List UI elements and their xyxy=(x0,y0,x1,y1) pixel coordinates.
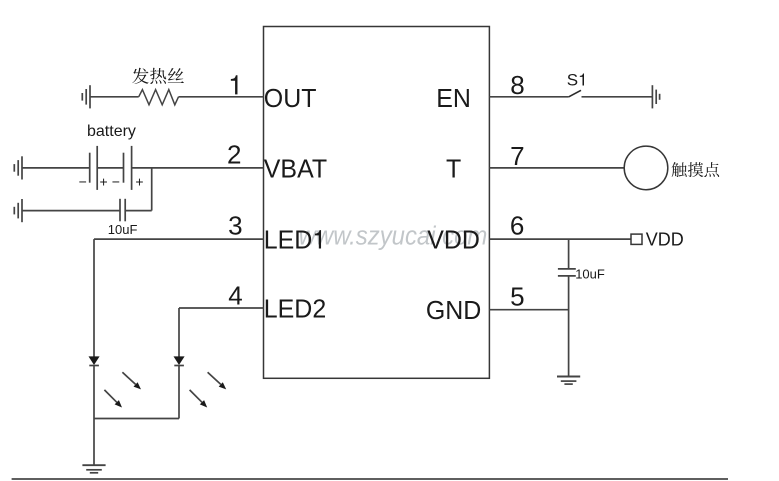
pin label T xyxy=(446,155,461,184)
svg-text:battery: battery xyxy=(87,123,136,140)
wire junction up to VBAT net xyxy=(151,168,153,211)
wire between battery cells xyxy=(97,167,123,169)
svg-text:+: + xyxy=(100,174,108,190)
ground (capacitor C1 return) xyxy=(21,199,23,222)
pin label OUT xyxy=(264,85,317,114)
wire switch S1 to ground xyxy=(582,96,653,98)
wire ground to battery B1 xyxy=(22,167,90,169)
label touch point (Chinese) xyxy=(672,162,720,177)
wire pin 5 GND to net xyxy=(489,309,568,311)
wire battery B1 to pin 2 VBAT xyxy=(132,167,264,169)
pin label GND xyxy=(426,297,481,326)
switch S1 lever xyxy=(569,90,581,97)
wire pin 4 down to LED D2 xyxy=(178,308,180,357)
battery B1 cell 1 xyxy=(89,153,91,183)
capacitor C2 xyxy=(558,268,576,270)
svg-text:−: − xyxy=(79,174,87,190)
pin label VBAT xyxy=(264,155,327,184)
svg-text:VDD: VDD xyxy=(646,230,684,250)
svg-text:S: S xyxy=(567,71,578,90)
svg-text:10uF: 10uF xyxy=(575,267,605,282)
wire resistor R1 to pin 1 OUT xyxy=(179,96,264,98)
wire pin 7 T to touch pad xyxy=(489,167,624,169)
pin label VDD xyxy=(427,226,480,255)
svg-text:7: 7 xyxy=(510,141,524,171)
wire LED D1 cathode down xyxy=(93,366,95,466)
svg-text:OUT: OUT xyxy=(264,85,317,114)
LED D1 light arrows xyxy=(122,372,135,384)
wire joining LED cathodes xyxy=(94,418,179,420)
wire pin 3 down to LED D1 xyxy=(93,239,95,357)
ground (C2 / GND net) xyxy=(557,376,580,378)
svg-text:GND: GND xyxy=(426,297,481,326)
svg-text:−: − xyxy=(112,174,120,190)
svg-text:5: 5 xyxy=(510,281,524,311)
wire ground to capacitor C1 xyxy=(22,210,120,212)
wire capacitor C2 down to ground xyxy=(568,276,570,376)
pin label LED1 xyxy=(264,226,321,255)
ground (heater return) xyxy=(89,85,91,108)
wire pin 4 LED2 horizontal xyxy=(179,307,264,309)
pin 1 number xyxy=(231,75,238,94)
label heating wire (Chinese) xyxy=(132,68,184,84)
svg-text:EN: EN xyxy=(436,85,471,114)
svg-text:3: 3 xyxy=(228,211,242,241)
LED D2 xyxy=(174,356,185,365)
svg-text:LED: LED xyxy=(264,226,313,255)
pin label EN xyxy=(436,85,471,114)
svg-text:T: T xyxy=(446,155,461,184)
wire junction down to capacitor C2 xyxy=(568,239,570,269)
touch pad circle xyxy=(624,146,668,190)
svg-text:VDD: VDD xyxy=(427,226,480,255)
VDD terminal square xyxy=(631,234,642,244)
svg-text:2: 2 xyxy=(227,140,241,170)
svg-text:+: + xyxy=(135,174,143,190)
ground (EN pull) xyxy=(651,85,653,108)
LED D2 light arrows xyxy=(208,372,221,384)
ground (battery negative) xyxy=(21,156,23,179)
wire pin 6 VDD to terminal xyxy=(489,238,631,240)
svg-text:VBAT: VBAT xyxy=(264,155,327,184)
svg-text:6: 6 xyxy=(510,211,524,241)
pin label LED2 xyxy=(264,295,326,324)
wire capacitor C1 to junction xyxy=(125,210,152,212)
battery B1 cell 2 xyxy=(123,153,125,183)
svg-text:8: 8 xyxy=(510,70,524,100)
wire pin 3 LED1 horizontal xyxy=(94,238,264,240)
wire LED D2 cathode down xyxy=(178,366,180,419)
svg-text:4: 4 xyxy=(228,281,242,311)
bottom border rule xyxy=(12,478,728,480)
svg-text:LED2: LED2 xyxy=(264,295,326,324)
IC U1 body xyxy=(264,27,490,379)
LED D1 xyxy=(89,356,100,365)
capacitor C1 xyxy=(119,199,121,222)
ground (LED return) xyxy=(82,464,105,466)
wire pin 8 EN to switch S1 xyxy=(489,96,568,98)
watermark xyxy=(299,221,488,250)
resistor R1 (heating wire) xyxy=(139,90,179,105)
wire ground to resistor R1 xyxy=(90,96,139,98)
svg-text:10uF: 10uF xyxy=(108,222,138,237)
